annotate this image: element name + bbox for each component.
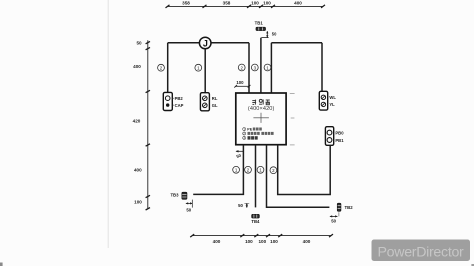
svg-text:GL: GL (212, 103, 218, 108)
svg-text:400: 400 (303, 239, 311, 244)
circled 2 wire2 (245, 166, 252, 173)
svg-text:50: 50 (272, 32, 277, 37)
lamp box RL/GL (200, 93, 209, 111)
circled 1 center-right (264, 64, 271, 71)
terminal TB3 (170, 192, 186, 199)
corner speck bottom-left (0, 263, 3, 266)
svg-text:50: 50 (136, 40, 142, 45)
svg-text:100: 100 (263, 0, 271, 5)
circled 2 top-left (158, 64, 165, 71)
drawing sheet border (faint) (107, 0, 109, 248)
wire top-left horizontal (168, 42, 249, 44)
svg-text:TB1: TB1 (255, 20, 264, 25)
svg-text:50: 50 (238, 203, 243, 208)
svg-text:100: 100 (251, 0, 259, 5)
svg-text:(400×420): (400×420) (248, 106, 275, 112)
dimension top ticks (166, 5, 326, 8)
label CAP (172, 103, 183, 108)
dimension 100 at box top-left (234, 80, 250, 88)
svg-text:PE: PE (247, 128, 252, 132)
svg-text:TB4: TB4 (251, 219, 260, 224)
dimension bottom line (192, 235, 331, 237)
wire right drop to WL/YL (321, 43, 323, 92)
svg-text:100: 100 (134, 200, 142, 205)
dimension left ticks (146, 41, 150, 210)
svg-text:3: 3 (243, 136, 245, 140)
svg-text:2: 2 (243, 132, 245, 136)
pushbutton box PB2/CAP (163, 92, 172, 110)
legend line 3: 제어반 (243, 136, 258, 140)
svg-text:PB1: PB1 (335, 138, 344, 143)
svg-text:50: 50 (331, 218, 336, 223)
circled 2 wire4 (270, 167, 277, 174)
pushbutton box PB0/PB1 (325, 127, 333, 146)
svg-text:400: 400 (134, 167, 142, 172)
dimension 50 at TB2 (330, 212, 339, 223)
dimension 50 at TB3 (186, 200, 193, 213)
dimension top labels (182, 0, 302, 5)
dimension left line (147, 40, 149, 209)
wire drop into box right entry (270, 43, 272, 94)
wire 2: box to TB4 (255, 145, 257, 208)
wire drop into box left entry (248, 43, 250, 94)
svg-text:100: 100 (245, 239, 253, 244)
dimension top line (168, 5, 324, 7)
svg-text:YL: YL (329, 102, 335, 107)
svg-text:WL: WL (329, 95, 336, 100)
circled 1 wire1 (233, 166, 240, 173)
svg-text:100: 100 (236, 80, 244, 85)
svg-text:RL: RL (212, 96, 218, 101)
svg-text:420: 420 (133, 119, 141, 124)
dimension bottom labels (213, 239, 311, 244)
dimension bottom ticks (190, 234, 333, 237)
lamp box WL/YL (319, 91, 327, 110)
svg-text:400: 400 (133, 64, 141, 69)
wire top-right horizontal (271, 42, 322, 44)
wire left drop to PB2/CAP (167, 43, 169, 93)
svg-text:PB2: PB2 (175, 96, 184, 101)
svg-text:358: 358 (182, 0, 190, 5)
wire TB1 drop into box (260, 38, 262, 94)
legend line 1: PE 전선관 (243, 127, 262, 131)
circled 2 center-left (238, 64, 245, 71)
legend line 2: 출제시설 전선관 (243, 132, 274, 136)
junction J (199, 37, 211, 49)
wire 4: box to PB0/PB1 (278, 145, 331, 195)
wire 3: box to TB2 (267, 145, 330, 208)
dimension left labels (133, 40, 143, 204)
label PB2 (172, 96, 183, 101)
svg-text:TB2: TB2 (345, 205, 354, 210)
wire 1: box to TB3 (193, 145, 243, 195)
svg-text:PowerDirector: PowerDirector (378, 245, 465, 261)
svg-text:100: 100 (258, 239, 266, 244)
svg-text:TB3: TB3 (170, 193, 179, 198)
PowerDirector watermark (372, 240, 471, 262)
terminal TB4 (251, 214, 260, 224)
svg-text:50: 50 (186, 207, 191, 212)
svg-text:400: 400 (213, 239, 221, 244)
centreline dashes right of box (290, 93, 295, 144)
circled 1 on J wire (195, 64, 202, 71)
circled 1 wire3 (257, 166, 264, 173)
dimension 50 at TB4 (238, 203, 249, 208)
circled 3 center (251, 64, 258, 71)
svg-text:100: 100 (270, 239, 278, 244)
svg-text:CAP: CAP (175, 103, 184, 108)
corner speck bottom-right (471, 264, 474, 266)
svg-text:1: 1 (243, 127, 245, 131)
wire J drop to RL/GL (204, 49, 206, 93)
terminal TB2 (337, 203, 353, 211)
centre cross mark (253, 113, 269, 123)
label 제어함 (hangul blobs) (252, 99, 270, 104)
svg-text:J: J (203, 38, 208, 48)
svg-text:358: 358 (223, 0, 231, 5)
control box U1 (236, 93, 286, 145)
dimension 50 at TB1 (261, 31, 268, 38)
dimension 50 below box (236, 150, 244, 159)
svg-text:PB0: PB0 (335, 130, 344, 135)
svg-text:400: 400 (294, 0, 302, 5)
terminal TB1 (255, 20, 266, 30)
